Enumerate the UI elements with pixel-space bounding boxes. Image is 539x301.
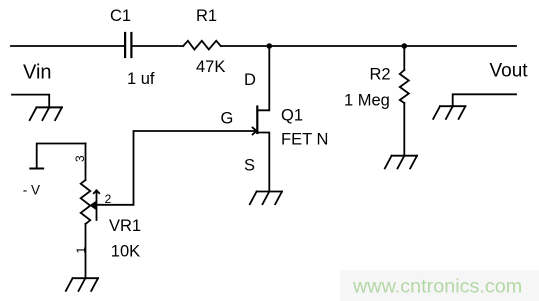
svg-text:FET N: FET N xyxy=(281,131,328,149)
svg-text:Q1: Q1 xyxy=(281,107,303,125)
svg-text:1 Meg: 1 Meg xyxy=(344,91,390,109)
svg-text:1 uf: 1 uf xyxy=(127,70,155,88)
svg-text:10K: 10K xyxy=(111,243,140,261)
svg-text:VR1: VR1 xyxy=(109,217,141,235)
svg-text:1: 1 xyxy=(74,247,88,254)
svg-text:Vout: Vout xyxy=(490,61,529,82)
svg-text:Vin: Vin xyxy=(23,62,52,84)
svg-text:2: 2 xyxy=(105,192,112,206)
svg-text:www.cntronics.com: www.cntronics.com xyxy=(352,276,522,298)
svg-text:R2: R2 xyxy=(370,66,391,84)
svg-text:C1: C1 xyxy=(110,7,131,25)
svg-text:G: G xyxy=(221,110,234,128)
svg-text:47K: 47K xyxy=(196,58,225,76)
svg-text:- V: - V xyxy=(23,183,40,198)
svg-text:3: 3 xyxy=(73,155,87,162)
svg-text:D: D xyxy=(244,71,256,89)
svg-text:S: S xyxy=(244,157,255,175)
svg-text:R1: R1 xyxy=(196,7,217,25)
